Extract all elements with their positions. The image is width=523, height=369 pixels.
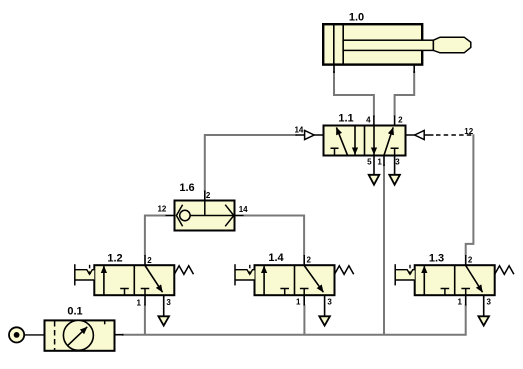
svg-text:1.3: 1.3 <box>429 252 444 264</box>
valve 1.4 left box up arrow <box>263 266 265 295</box>
svg-text:1.1: 1.1 <box>338 112 353 124</box>
wire from cylinder right port to valve 1.1 port 2 <box>395 71 415 117</box>
svg-text:3: 3 <box>395 157 400 166</box>
service unit 0.1 top tick <box>104 321 106 325</box>
valve 1.2 left box blocked port <box>120 289 129 296</box>
svg-text:12: 12 <box>157 205 166 214</box>
wire from shuttle valve 1.6 port 2 up to pilot 14 of valve 1.1 <box>205 135 297 192</box>
valve 1.4 port 3 exhaust line <box>324 295 326 316</box>
valve 1.1 left box blocked port <box>331 148 339 155</box>
valve U1.4 3/2-way body <box>255 265 335 295</box>
cylinder 1.0 piston rod <box>343 40 433 50</box>
cylinder U1.0 body <box>323 24 422 64</box>
shuttle valve 1.6 left port stub <box>166 215 175 217</box>
svg-text:14: 14 <box>239 205 248 214</box>
valve 1.3 right box blocked port <box>461 289 470 296</box>
valve 1.1 port 5 exhaust line <box>373 156 375 175</box>
valve U1.2 3/2-way body <box>94 265 174 295</box>
valve 1.3 left box blocked port <box>441 289 450 296</box>
valve 1.4 position divider <box>294 265 296 295</box>
valve 1.1 left box diagonal arrow <box>336 127 347 155</box>
shuttle valve U1.6 body <box>175 201 235 231</box>
valve 1.1 right box diagonal arrow <box>384 127 393 155</box>
valve 1.1 left box down arrow <box>354 126 356 155</box>
valve U1.3 3/2-way body <box>415 265 495 295</box>
valve 1.1 port 2 stub <box>394 116 396 127</box>
svg-text:1.6: 1.6 <box>179 182 194 194</box>
valve 1.3 detent actuator <box>395 264 415 285</box>
service unit U0.1 body <box>45 320 115 350</box>
shuttle valve 1.6 left seat <box>176 205 182 227</box>
wire from supply bus up to valve 1.4 port 1 <box>303 305 305 335</box>
svg-text:0.1: 0.1 <box>67 305 82 317</box>
valve 1.3 port 3 exhaust triangle <box>478 316 489 325</box>
svg-text:4: 4 <box>366 116 371 125</box>
valve U1.1 5/2-way body <box>324 126 406 156</box>
valve 1.4 left box blocked port <box>280 289 289 296</box>
valve 1.3 port 2 stub <box>465 255 467 265</box>
svg-text:12: 12 <box>464 127 473 136</box>
shuttle valve 1.6 right port stub <box>235 215 244 217</box>
service unit 0.1 dashed separator <box>54 321 56 350</box>
svg-text:14: 14 <box>294 125 303 134</box>
valve 1.3 left box up arrow <box>423 266 425 295</box>
valve 1.2 port 2 stub <box>144 255 146 265</box>
valve 1.2 right box diagonal arrow <box>145 266 163 293</box>
shuttle valve 1.6 middle flow line <box>190 215 234 217</box>
shuttle valve 1.6 top port stub <box>204 191 206 201</box>
wire from shuttle valve 1.6 left port to valve 1.2 port 2 <box>145 216 166 256</box>
svg-text:2: 2 <box>206 191 211 200</box>
svg-text:1: 1 <box>457 298 462 307</box>
valve 1.2 detent actuator <box>75 264 95 285</box>
shuttle valve 1.6 outlet line to port 2 <box>204 201 206 216</box>
valve 1.1 port 1 stub <box>383 156 385 167</box>
wire from pilot 12 of valve 1.1 down to valve 1.3 port 2 <box>466 134 474 255</box>
valve 1.1 pilot 12 stub and triangle <box>406 134 415 136</box>
valve 1.1 port 3 exhaust triangle <box>389 175 400 185</box>
valve 1.1 position divider <box>364 126 366 156</box>
svg-text:2: 2 <box>468 256 473 265</box>
wire from valve 1.1 port 1 down to supply bus <box>383 165 385 335</box>
svg-text:1: 1 <box>137 298 142 307</box>
valve 1.4 port 2 stub <box>303 255 305 265</box>
valve 1.3 right box diagonal arrow <box>466 266 483 293</box>
svg-text:2: 2 <box>398 116 403 125</box>
valve 1.1 port 4 stub <box>373 116 375 127</box>
wire from cylinder left port to valve 1.1 port 4 <box>334 71 374 117</box>
valve 1.1 port 5 exhaust triangle <box>369 175 380 185</box>
valve 1.4 return spring <box>335 266 354 275</box>
cylinder 1.0 right port stub <box>413 65 415 73</box>
service unit 0.1 output stub <box>115 334 124 336</box>
svg-text:1.2: 1.2 <box>107 252 122 264</box>
shuttle valve 1.6 right seat <box>225 205 234 227</box>
svg-text:5: 5 <box>367 157 372 166</box>
wire from shuttle valve 1.6 right port to valve 1.4 port 2 <box>243 216 304 256</box>
service unit 0.1 gauge <box>63 320 93 350</box>
valve 1.1 pilot 12 dashed signal line <box>436 134 473 136</box>
cylinder 1.0 left port stub <box>333 65 335 73</box>
valve 1.4 detent actuator <box>235 264 255 285</box>
svg-text:3: 3 <box>166 298 171 307</box>
valve 1.2 port 3 exhaust triangle <box>158 316 169 325</box>
shuttle valve 1.6 ball <box>180 210 190 220</box>
valve 1.3 return spring <box>495 266 514 275</box>
valve 1.2 right box blocked port <box>141 289 150 296</box>
svg-text:1: 1 <box>296 298 301 307</box>
valve 1.2 return spring <box>174 266 193 275</box>
valve 1.4 right box blocked port <box>300 289 309 296</box>
svg-text:1: 1 <box>377 157 382 166</box>
svg-text:1.0: 1.0 <box>349 12 364 24</box>
valve 1.2 port 1 stub <box>144 295 146 305</box>
valve 1.3 port 3 exhaust line <box>483 295 485 316</box>
svg-text:1.4: 1.4 <box>268 252 284 264</box>
svg-text:2: 2 <box>307 256 312 265</box>
valve 1.4 port 3 exhaust triangle <box>319 316 330 325</box>
service unit 0.1 gauge needle <box>68 327 87 345</box>
svg-text:2: 2 <box>147 256 152 265</box>
cylinder 1.0 rod coupler <box>433 37 470 53</box>
svg-text:3: 3 <box>327 298 332 307</box>
svg-text:3: 3 <box>487 298 492 307</box>
valve 1.4 port 1 stub <box>303 295 305 305</box>
valve 1.1 port 3 exhaust line <box>394 156 396 175</box>
valve 1.3 position divider <box>454 265 456 295</box>
cylinder 1.0 piston <box>334 25 343 64</box>
valve 1.2 port 3 exhaust line <box>163 295 165 316</box>
valve 1.2 left box up arrow <box>103 266 105 295</box>
valve 1.1 pilot 14 stub and triangle <box>314 134 323 136</box>
wire from supply bus up to valve 1.2 port 1 <box>144 305 146 335</box>
valve 1.1 right box blocked port <box>391 148 399 155</box>
valve 1.1 right box down arrow <box>373 126 375 155</box>
valve 1.2 position divider <box>133 265 135 295</box>
supply bus wire from service unit 0.1 to valve 1.3 port 1 <box>122 305 466 335</box>
compressed air source <box>9 327 45 342</box>
valve 1.3 port 1 stub <box>465 295 467 305</box>
valve 1.4 right box diagonal arrow <box>304 266 323 293</box>
